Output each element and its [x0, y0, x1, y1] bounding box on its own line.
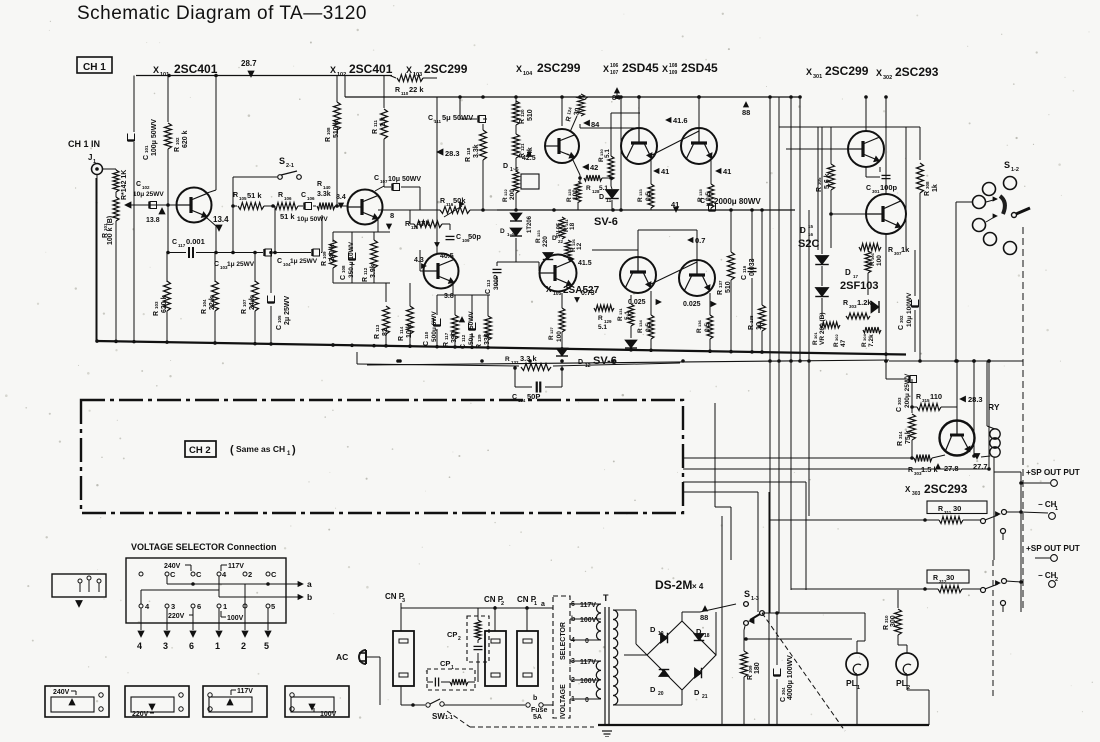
svg-text:303: 303 [849, 304, 857, 309]
svg-text:113: 113 [375, 324, 380, 332]
svg-text:S2C: S2C [798, 238, 819, 250]
svg-text:302: 302 [883, 75, 892, 81]
svg-text:C: C [196, 570, 202, 579]
svg-text:R: R [861, 342, 868, 347]
svg-text:6: 6 [189, 641, 194, 651]
svg-text:Fuse: Fuse [531, 707, 547, 714]
svg-text:b: b [533, 695, 537, 702]
svg-text:T: T [603, 593, 609, 603]
svg-text:390: 390 [451, 331, 458, 343]
svg-text:106: 106 [284, 196, 292, 201]
svg-text:R: R [586, 185, 591, 192]
svg-text:107: 107 [610, 70, 619, 76]
svg-text:S: S [1004, 160, 1010, 170]
svg-text:C: C [700, 198, 705, 205]
svg-text:75 k: 75 k [905, 430, 912, 444]
svg-text:88: 88 [700, 613, 708, 622]
svg-text:140: 140 [323, 185, 331, 190]
svg-text:301: 301 [813, 332, 818, 339]
svg-text:350 μ 10WV: 350 μ 10WV [348, 241, 355, 278]
svg-text:X: X [153, 65, 159, 75]
svg-text:R: R [440, 198, 445, 205]
svg-text:C: C [866, 185, 871, 192]
svg-text:28.7: 28.7 [241, 59, 257, 68]
svg-text:0.73: 0.73 [581, 290, 595, 297]
svg-text:82: 82 [382, 328, 389, 336]
svg-text:D: D [845, 268, 851, 277]
svg-text:R: R [696, 328, 703, 333]
svg-text:13.8: 13.8 [146, 217, 160, 224]
svg-text:1: 1 [534, 601, 537, 607]
svg-text:51 k: 51 k [247, 191, 262, 200]
svg-text:117: 117 [178, 243, 186, 248]
svg-text:2SC299: 2SC299 [825, 64, 869, 78]
svg-text:510: 510 [527, 109, 534, 121]
svg-text:28.3: 28.3 [445, 149, 460, 158]
svg-text:136: 136 [697, 320, 702, 327]
svg-text:1-3: 1-3 [751, 596, 759, 602]
svg-text:3: 3 [402, 598, 405, 604]
svg-text:CP: CP [440, 659, 450, 668]
svg-text:C: C [741, 275, 748, 280]
svg-text:302: 302 [899, 315, 904, 323]
svg-text:R: R [374, 334, 381, 339]
svg-text:110: 110 [424, 331, 429, 339]
svg-text:41.6: 41.6 [673, 116, 688, 125]
svg-text:305: 305 [817, 177, 822, 185]
svg-text:R: R [843, 300, 848, 307]
svg-text:5.1: 5.1 [598, 324, 607, 331]
svg-text:50μ: 50μ [468, 334, 475, 345]
svg-text:R: R [398, 336, 405, 341]
svg-text:C: C [896, 407, 903, 412]
svg-text:R: R [924, 191, 931, 196]
svg-text:137: 137 [718, 280, 723, 288]
svg-text:2: 2 [458, 636, 461, 642]
svg-text:X: X [806, 67, 812, 77]
svg-text:R: R [502, 197, 509, 202]
svg-text:17: 17 [853, 274, 859, 279]
svg-text:330: 330 [484, 333, 491, 345]
svg-text:CH 1 IN: CH 1 IN [68, 139, 100, 149]
svg-text:4000μ 100WV: 4000μ 100WV [787, 655, 794, 700]
svg-text:2-1: 2-1 [286, 163, 294, 169]
svg-text:12: 12 [576, 242, 583, 250]
svg-text:R: R [317, 181, 322, 188]
svg-text:106: 106 [610, 63, 619, 69]
svg-text:1μ 25WV: 1μ 25WV [227, 261, 255, 268]
svg-text:308: 308 [925, 181, 930, 189]
svg-text:R: R [916, 394, 921, 401]
svg-text:311: 311 [944, 510, 952, 515]
svg-text:R: R [617, 316, 624, 321]
svg-text:R: R [748, 325, 755, 330]
svg-text:C: C [172, 239, 177, 246]
svg-text:22: 22 [558, 239, 564, 244]
svg-text:300: 300 [890, 615, 897, 627]
svg-text:100V: 100V [580, 678, 597, 685]
svg-text:C: C [340, 275, 347, 280]
svg-text:C: C [485, 289, 492, 294]
svg-text:100: 100 [876, 255, 883, 266]
svg-text:41.5: 41.5 [578, 260, 592, 267]
svg-text:R: R [717, 290, 724, 295]
svg-text:(: ( [230, 444, 234, 456]
svg-text:R: R [201, 309, 208, 314]
svg-text:1: 1 [215, 641, 220, 651]
svg-text:R: R [908, 467, 913, 474]
svg-text:S: S [279, 156, 285, 166]
svg-text:1k: 1k [901, 245, 910, 254]
svg-text:X: X [876, 68, 882, 78]
svg-text:220: 220 [542, 236, 549, 247]
svg-text:C: C [456, 234, 461, 241]
svg-text:3: 3 [171, 602, 175, 611]
svg-text:R: R [395, 87, 400, 94]
svg-text:R: R [938, 506, 943, 513]
svg-text:2SC299: 2SC299 [424, 62, 468, 76]
svg-text:VOLTAGE SELECTOR Connection: VOLTAGE SELECTOR Connection [131, 542, 277, 552]
svg-text:310: 310 [884, 615, 889, 623]
svg-text:304: 304 [862, 334, 867, 341]
svg-text:2SC293: 2SC293 [924, 482, 968, 496]
svg-text:4: 4 [137, 641, 142, 651]
svg-text:118: 118 [466, 147, 471, 155]
svg-text:2: 2 [241, 641, 246, 651]
svg-text:3.3k: 3.3k [317, 191, 331, 198]
svg-text:VOLTAGE: VOLTAGE [560, 684, 567, 717]
svg-text:302: 302 [834, 334, 839, 341]
svg-text:1T206: 1T206 [527, 215, 533, 233]
svg-text:41: 41 [723, 167, 731, 176]
svg-text:2000μ 80WV: 2000μ 80WV [714, 197, 761, 206]
svg-text:50p: 50p [468, 232, 481, 241]
svg-text:D: D [503, 163, 508, 170]
svg-text:304: 304 [781, 687, 786, 695]
svg-text:18: 18 [704, 633, 710, 639]
svg-text:16: 16 [808, 232, 814, 237]
svg-text:10μ 50WV: 10μ 50WV [297, 216, 328, 223]
svg-text:0.5: 0.5 [645, 192, 652, 201]
svg-text:100p: 100p [880, 183, 898, 192]
svg-text:X: X [546, 285, 552, 294]
svg-text:R: R [372, 129, 379, 134]
svg-text:1-1: 1-1 [445, 715, 453, 721]
svg-text:100V: 100V [580, 617, 597, 624]
svg-text:18: 18 [569, 222, 576, 230]
svg-text:7.2k: 7.2k [868, 334, 875, 347]
svg-text:R: R [637, 328, 644, 333]
svg-text:b: b [307, 592, 312, 602]
svg-text:117V: 117V [237, 688, 253, 695]
svg-text:10μ 100WV: 10μ 100WV [906, 292, 913, 327]
svg-text:3.9k: 3.9k [370, 264, 377, 278]
svg-text:D: D [599, 194, 604, 201]
svg-text:1: 1 [223, 602, 227, 611]
svg-text:240 k: 240 k [329, 244, 336, 262]
svg-text:10 k: 10 k [406, 324, 413, 338]
svg-text:2SF103: 2SF103 [840, 280, 879, 292]
svg-text:220V: 220V [132, 711, 149, 718]
svg-text:C: C [136, 181, 141, 188]
svg-text:R: R [747, 675, 754, 680]
svg-text:315: 315 [922, 398, 930, 403]
svg-text:117: 117 [444, 332, 449, 340]
svg-text:117V: 117V [580, 659, 596, 666]
svg-text:0: 0 [585, 697, 589, 704]
svg-text:138: 138 [749, 315, 754, 323]
svg-text:3.3 k: 3.3 k [520, 354, 538, 363]
svg-text:51 k: 51 k [280, 212, 295, 221]
svg-text:CP: CP [447, 630, 457, 639]
svg-text:114: 114 [399, 326, 404, 334]
svg-text:C: C [301, 192, 306, 199]
svg-text:− CH: − CH [1038, 500, 1057, 509]
svg-text:J: J [88, 153, 92, 162]
svg-text:110: 110 [401, 91, 409, 96]
svg-text:C: C [898, 325, 905, 330]
svg-text:C: C [143, 155, 150, 160]
svg-text:30: 30 [946, 573, 954, 582]
svg-text:131: 131 [618, 308, 623, 315]
svg-text:309: 309 [748, 665, 753, 673]
svg-text:R: R [325, 137, 332, 142]
svg-text:6: 6 [197, 602, 201, 611]
svg-text:8: 8 [390, 211, 394, 220]
svg-text:240V: 240V [53, 689, 70, 696]
svg-text:X: X [662, 64, 668, 74]
svg-text:R: R [278, 192, 283, 199]
svg-text:5.1: 5.1 [624, 311, 631, 320]
svg-text:100 k (B): 100 k (B) [107, 216, 114, 245]
svg-text:105: 105 [239, 196, 247, 201]
svg-text:115: 115 [706, 202, 714, 207]
svg-text:R: R [598, 315, 603, 322]
svg-text:101: 101 [144, 145, 149, 153]
svg-text:4.3: 4.3 [414, 257, 424, 264]
svg-text:X: X [516, 64, 522, 74]
svg-text:SV-6: SV-6 [594, 216, 618, 228]
svg-text:R: R [465, 157, 472, 162]
svg-text:R: R [362, 277, 369, 282]
svg-text:D: D [696, 627, 702, 636]
svg-text:50WV: 50WV [468, 311, 475, 329]
svg-text:11: 11 [606, 198, 612, 204]
svg-text:0.5: 0.5 [705, 192, 712, 201]
svg-text:C: C [428, 115, 433, 122]
svg-text:500μ 6WV: 500μ 6WV [431, 311, 438, 342]
svg-text:28.3: 28.3 [968, 395, 983, 404]
svg-text:RY: RY [988, 402, 1000, 412]
svg-text:24 k: 24 k [249, 296, 256, 310]
svg-text:100μ 50WV: 100μ 50WV [151, 119, 158, 156]
svg-text:5μ 50WV: 5μ 50WV [442, 113, 473, 122]
svg-text:C: C [780, 697, 787, 702]
svg-text:5: 5 [264, 641, 269, 651]
svg-text:2SD45: 2SD45 [622, 61, 659, 75]
svg-text:15: 15 [808, 224, 814, 229]
svg-text:127: 127 [549, 327, 554, 334]
svg-text:2SD45: 2SD45 [681, 61, 718, 75]
svg-text:2: 2 [501, 601, 504, 607]
svg-text:27.7: 27.7 [973, 462, 988, 471]
svg-text:X: X [330, 65, 336, 75]
svg-text:104: 104 [202, 299, 207, 307]
svg-text:R: R [888, 247, 893, 254]
svg-text:108: 108 [326, 127, 331, 135]
svg-text:220V: 220V [168, 613, 185, 620]
svg-text:620 k: 620 k [182, 130, 189, 148]
svg-text:133: 133 [638, 189, 643, 196]
svg-text:2SC401: 2SC401 [349, 62, 393, 76]
svg-text:180: 180 [754, 662, 761, 674]
svg-text:111: 111 [434, 119, 442, 124]
svg-text:103: 103 [154, 301, 159, 309]
svg-text:132: 132 [511, 360, 519, 365]
svg-text:12: 12 [585, 363, 591, 369]
svg-text:200μ 25WV: 200μ 25WV [904, 373, 911, 408]
svg-text:C: C [374, 175, 379, 182]
svg-text:S: S [744, 589, 750, 599]
svg-text:121: 121 [520, 143, 525, 151]
svg-text:5: 5 [271, 602, 275, 611]
svg-text:303: 303 [897, 397, 902, 405]
svg-text:2SC299: 2SC299 [537, 61, 581, 75]
svg-text:R: R [321, 261, 328, 266]
svg-text:R: R [233, 192, 238, 199]
svg-text:1k: 1k [932, 184, 939, 192]
svg-text:0.033: 0.033 [749, 258, 756, 276]
svg-text:R: R [637, 197, 644, 202]
svg-text:47k: 47k [417, 219, 430, 228]
svg-text:PL: PL [896, 678, 907, 688]
svg-text:3.8: 3.8 [444, 293, 454, 300]
svg-text:0: 0 [585, 638, 589, 645]
svg-text:C: C [170, 570, 176, 579]
svg-text:100: 100 [556, 331, 563, 342]
svg-text:D: D [800, 226, 806, 235]
svg-text:510 k: 510 k [333, 120, 340, 138]
svg-text:2μ 25WV: 2μ 25WV [284, 295, 291, 325]
svg-text:105: 105 [553, 291, 562, 297]
svg-text:111: 111 [373, 119, 378, 127]
svg-text:10μ 25WV: 10μ 25WV [133, 191, 164, 198]
svg-text:300P: 300P [493, 274, 500, 290]
svg-text:42: 42 [590, 163, 598, 172]
svg-text:5A: 5A [533, 714, 542, 721]
svg-text:CH 2: CH 2 [189, 445, 211, 456]
svg-text:1 k: 1 k [380, 117, 387, 127]
svg-text:SELECTOR: SELECTOR [560, 622, 567, 660]
svg-text:C: C [276, 325, 283, 330]
svg-text:134: 134 [638, 320, 643, 327]
svg-text:D: D [650, 685, 656, 694]
svg-text:R: R [933, 575, 938, 582]
svg-text:X: X [406, 65, 412, 75]
svg-text:105: 105 [277, 315, 282, 323]
svg-text:22 k: 22 k [409, 85, 424, 94]
svg-text:1.2k: 1.2k [857, 298, 872, 307]
svg-text:X: X [603, 64, 609, 74]
svg-text:303: 303 [912, 491, 921, 497]
svg-text:R: R [519, 119, 526, 124]
svg-text:C: C [271, 570, 277, 579]
svg-text:C: C [423, 341, 430, 346]
svg-text:30: 30 [953, 504, 961, 513]
svg-text:AC: AC [336, 652, 348, 662]
svg-text:117V: 117V [580, 602, 596, 609]
svg-text:R: R [505, 356, 510, 363]
svg-text:620 k: 620 k [161, 295, 168, 313]
svg-text:10μ 50WV: 10μ 50WV [388, 176, 421, 183]
svg-text:2: 2 [248, 570, 252, 579]
svg-text:88: 88 [742, 108, 750, 117]
svg-text:× 4: × 4 [692, 582, 704, 591]
svg-text:117V: 117V [228, 563, 244, 570]
svg-text:D: D [694, 688, 700, 697]
svg-text:D: D [500, 228, 505, 235]
svg-text:100V: 100V [227, 615, 244, 622]
svg-text:13.4: 13.4 [213, 215, 229, 224]
svg-text:PL: PL [846, 678, 857, 688]
svg-text:106: 106 [307, 196, 315, 201]
svg-text:10: 10 [756, 322, 763, 330]
svg-text:a: a [307, 579, 312, 589]
svg-text:2SC401: 2SC401 [174, 62, 218, 76]
svg-text:R: R [153, 311, 160, 316]
svg-text:108: 108 [669, 63, 678, 69]
svg-text:R: R [405, 221, 410, 228]
svg-text:0.5: 0.5 [645, 323, 652, 332]
svg-text:107: 107 [242, 299, 247, 307]
svg-text:41: 41 [661, 167, 669, 176]
svg-text:CH 1: CH 1 [83, 62, 106, 73]
svg-text:0.001: 0.001 [186, 237, 205, 246]
svg-text:5.1: 5.1 [604, 149, 611, 158]
svg-text:+SP OUT PUT: +SP OUT PUT [1026, 468, 1080, 477]
svg-text:108: 108 [341, 265, 346, 273]
svg-text:C: C [277, 258, 282, 265]
svg-text:139: 139 [477, 334, 482, 342]
svg-text:Schematic Diagram of TA—312: Schematic Diagram of TA—3120 [77, 3, 367, 24]
svg-text:1: 1 [451, 665, 454, 671]
svg-text:240V: 240V [164, 563, 181, 570]
svg-text:113: 113 [486, 279, 491, 287]
svg-text:R: R [812, 340, 819, 345]
svg-text:− CH: − CH [1038, 571, 1057, 580]
svg-text:R: R [833, 342, 840, 347]
svg-text:1μ 25WV: 1μ 25WV [290, 258, 318, 265]
svg-text:120: 120 [520, 109, 525, 117]
svg-text:R: R [816, 187, 823, 192]
svg-text:0.025: 0.025 [683, 301, 701, 308]
svg-text:5.6 k: 5.6 k [824, 173, 831, 189]
svg-text:+SP OUT PUT: +SP OUT PUT [1026, 544, 1080, 553]
svg-text:R: R [241, 309, 248, 314]
svg-text:22 k: 22 k [209, 296, 216, 310]
svg-text:R*142 1K: R*142 1K [121, 170, 128, 200]
svg-text:301: 301 [813, 74, 822, 80]
svg-text:100V: 100V [320, 711, 337, 718]
svg-text:R: R [883, 625, 890, 630]
svg-text:1: 1 [1055, 506, 1058, 512]
svg-text:110: 110 [930, 392, 942, 401]
svg-text:122: 122 [503, 189, 508, 196]
svg-text:123: 123 [536, 230, 541, 237]
svg-text:1~5: 1~5 [507, 232, 515, 237]
svg-text:0.5: 0.5 [704, 323, 711, 332]
svg-text:41: 41 [671, 200, 679, 209]
